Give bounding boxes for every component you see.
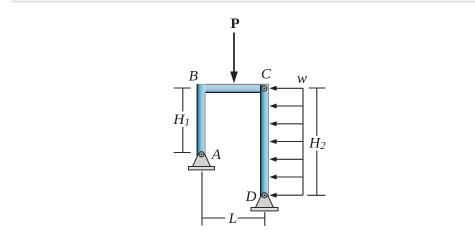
member AB (left column) bbox=[197, 84, 206, 157]
svg-text:L: L bbox=[228, 211, 237, 227]
svg-text:H2: H2 bbox=[308, 136, 326, 153]
w arrow 4 bbox=[269, 139, 303, 144]
svg-text:D: D bbox=[245, 189, 257, 205]
pin D bbox=[262, 193, 267, 198]
svg-text:P: P bbox=[231, 16, 240, 32]
w arrow 5 bbox=[269, 157, 303, 162]
dimension H2 bbox=[307, 88, 325, 195]
distributed load line w bbox=[302, 88, 304, 195]
svg-text:w: w bbox=[297, 71, 307, 87]
support A (pin support pedestal) bbox=[189, 153, 215, 170]
dimension L bbox=[202, 172, 265, 227]
svg-text:A: A bbox=[211, 147, 222, 163]
w arrow 2 bbox=[269, 104, 303, 109]
svg-text:C: C bbox=[261, 67, 272, 83]
top border bar bbox=[12, 1, 475, 3]
svg-text:B: B bbox=[189, 69, 198, 85]
support D (pin support pedestal) bbox=[251, 194, 278, 211]
load arrow P bbox=[230, 33, 238, 84]
pin C bbox=[262, 86, 267, 91]
member BC (horizontal beam) bbox=[197, 84, 269, 92]
dimension H1 bbox=[174, 88, 191, 153]
w arrow 1 bbox=[269, 86, 303, 91]
w arrow 3 bbox=[269, 121, 303, 126]
pin A bbox=[199, 152, 204, 157]
svg-text:H1: H1 bbox=[173, 112, 190, 129]
member CD (right column) bbox=[260, 84, 269, 199]
w arrow 6 bbox=[269, 175, 303, 180]
w arrow 7 bbox=[269, 193, 303, 198]
